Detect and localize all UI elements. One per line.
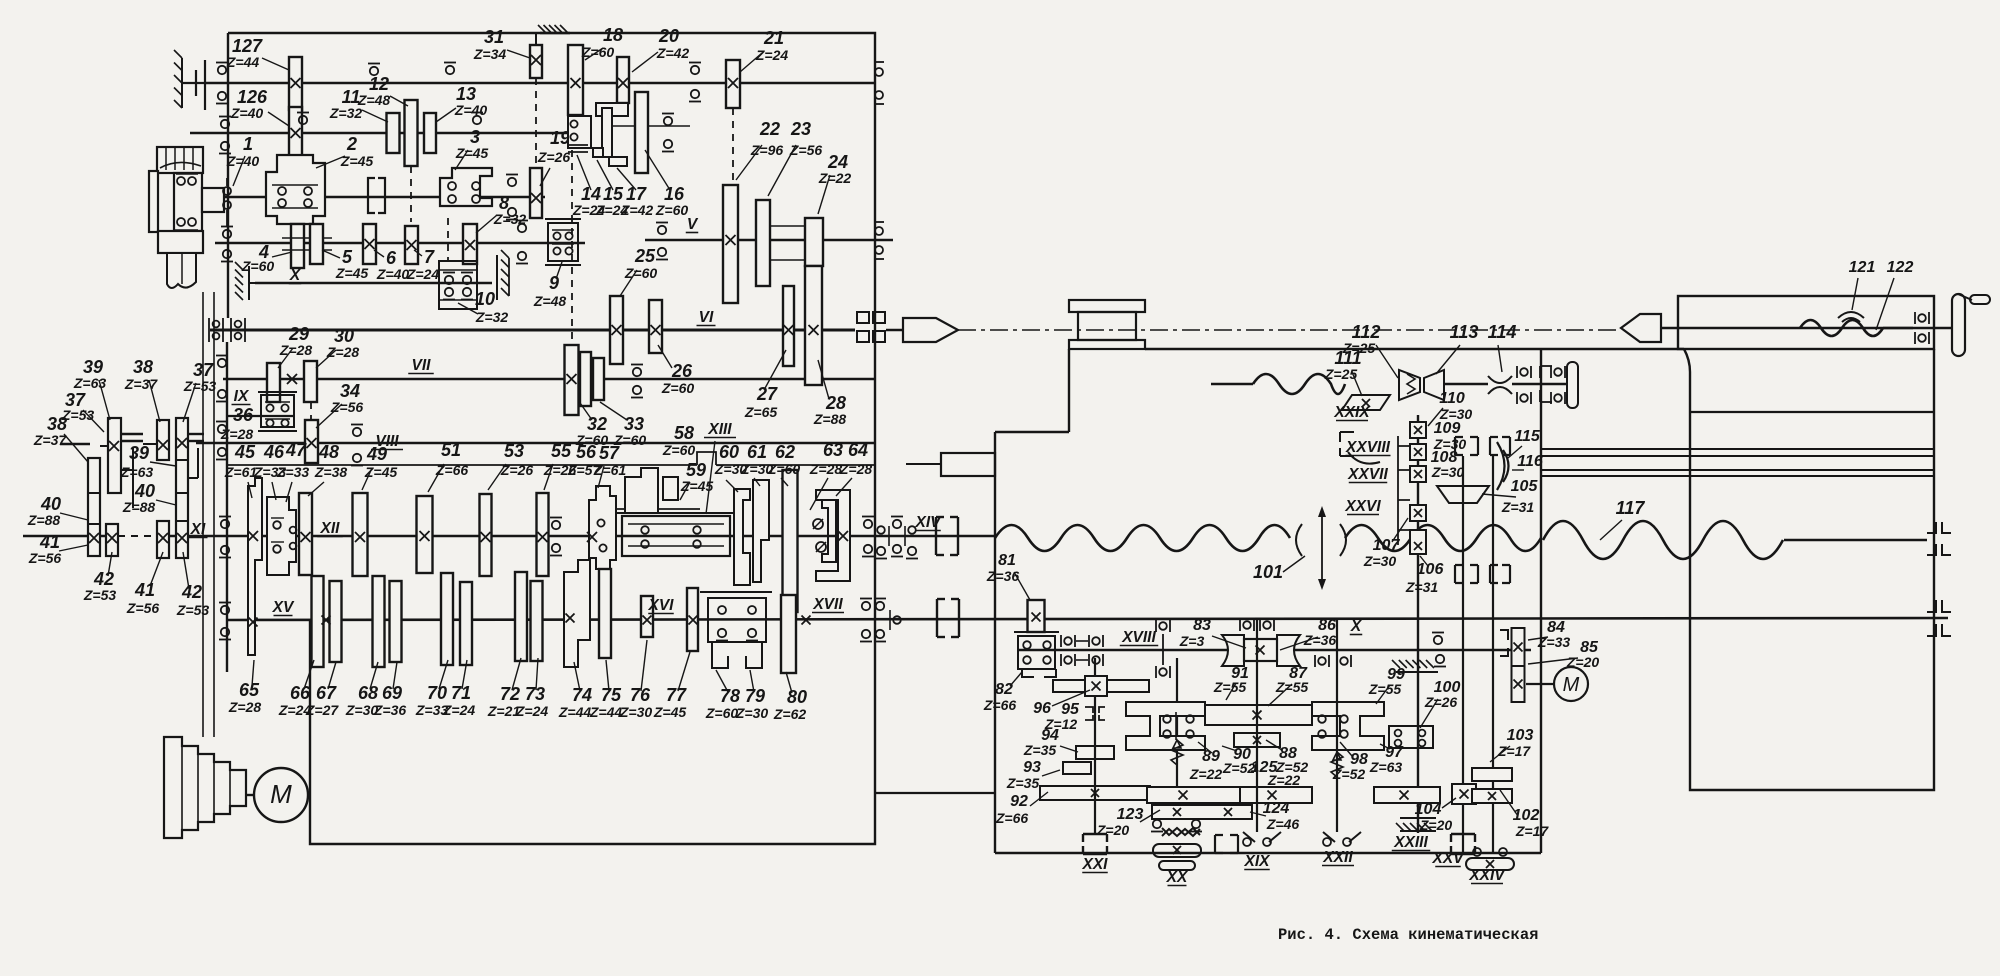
gear 81 Z=36 [1028,600,1045,632]
gear 7 Z=24 on shaft II [405,226,418,264]
svg-text:Z=60: Z=60 [662,442,696,458]
svg-text:16: 16 [664,184,685,204]
gear 15 step [593,148,603,157]
tailstock screw bearing [1914,312,1916,324]
gear 38 Z=37 right pair upper [157,420,169,460]
gear 42 Z=53 lower [106,524,118,556]
svg-text:Z=66: Z=66 [983,697,1017,713]
svg-text:51: 51 [441,440,461,460]
svg-text:Z=44: Z=44 [558,704,592,720]
svg-text:Z=56: Z=56 [28,550,62,566]
gear 60 Z=30 [734,489,750,585]
shaft X short [255,282,492,285]
vertical shaft XXI [1094,658,1096,835]
svg-text:71: 71 [451,683,471,703]
svg-text:Z=24: Z=24 [406,266,440,282]
bearing block 14 [568,116,591,148]
shaft VIII [196,442,875,445]
gear 28 Z=88 on shaft VI [805,266,822,385]
svg-text:75: 75 [601,685,622,705]
svg-text:XV: XV [272,599,295,616]
bearings left wall shaft XV [221,606,229,614]
spring 114 [1488,376,1512,383]
clutch jaws upper [1455,437,1478,455]
centerline through gears 22 23 24 [769,225,806,227]
svg-text:15: 15 [603,184,624,204]
belt lines from motor pulley to spindle pulley [202,292,204,737]
coupling bottom XXI [1083,833,1107,835]
spindle center point cone [903,318,958,342]
gear 26 Z=60 on shaft VI [649,300,662,353]
svg-text:102: 102 [1513,807,1540,824]
bearing sign near 84 [1434,636,1442,644]
tailstock top housing [1678,296,1934,349]
svg-text:X: X [289,267,302,284]
ratchet on shaft XX [1162,828,1200,835]
svg-text:Z=55: Z=55 [1368,681,1402,697]
svg-text:Z=45: Z=45 [455,145,489,161]
svg-text:Z=36: Z=36 [373,702,407,718]
gear 23 Z=56 on shaft V [756,200,770,286]
gear 55 Z=26 [537,493,549,576]
svg-text:M: M [1563,674,1580,696]
gear 90 small on shaft XIX [1234,733,1280,747]
svg-text:Z=63: Z=63 [1369,759,1403,775]
wall bracket left end of shaft IV [204,60,206,110]
svg-text:Z=22: Z=22 [1189,766,1223,782]
clutch on spindle right end [857,312,869,323]
shaft XVIII and X in apron [1017,649,1531,652]
svg-text:Z=40: Z=40 [454,102,488,118]
svg-text:62: 62 [775,442,795,462]
svg-text:96: 96 [1033,700,1051,717]
svg-text:36: 36 [233,405,254,425]
gear 51 Z=66 [417,496,433,573]
svg-text:42: 42 [93,569,114,589]
gear 49 Z=45 [353,493,368,576]
gear 80 Z=62 [781,595,796,673]
svg-text:74: 74 [572,685,592,705]
gear 76 Z=30 [641,596,653,637]
svg-text:78: 78 [720,686,740,706]
gear 75 Z=44 [599,569,611,658]
svg-text:103: 103 [1507,727,1534,744]
gear 84 Z=33 and 85 Z=20 [1500,630,1508,656]
hub line through cluster [601,125,690,127]
svg-text:XXII: XXII [1322,849,1353,866]
svg-text:63: 63 [823,440,843,460]
svg-text:23: 23 [790,119,811,139]
spindle lower stub with break [167,253,196,288]
svg-text:48: 48 [318,442,339,462]
break arcs and arrow 101 [1296,524,1302,556]
gear 66 Z=24 [312,576,324,667]
gear 63 Z=28 inner bracket [822,500,836,562]
bearing ticks on shaft X [1155,620,1157,632]
svg-text:Z=46: Z=46 [1266,816,1300,832]
bearings on shaft IV [218,66,226,74]
wall hatch right of gear 10 [496,255,498,300]
svg-text:XVI: XVI [648,597,675,614]
vertical shaft XIX with bevel [1256,620,1258,832]
svg-text:XIII: XIII [707,421,732,438]
overrunning rollers near gear 64 [813,519,823,529]
bearings shaft II right [518,224,526,232]
shift fork rail above gear row 45-64 [227,464,697,466]
long gear 123 Z=20 and 124 Z=46 [1147,787,1240,803]
svg-text:Z=65: Z=65 [744,404,778,420]
svg-text:Z=66: Z=66 [995,810,1029,826]
shaft XIII gear block 58 59 [617,508,700,510]
svg-text:Z=56: Z=56 [330,399,364,415]
arcs 121 [1838,312,1864,318]
shaft II [215,242,585,245]
bearing block 46 47 [267,497,296,575]
svg-text:Z=34: Z=34 [473,46,507,62]
gear 16 disc [635,92,648,173]
svg-text:XXVIII: XXVIII [1345,439,1391,456]
lathe bed ways lines [1541,448,1934,450]
bearings on shaft XII mid [552,521,560,529]
apron and feed box housing [994,432,996,853]
shaft XXIII hatch [1400,817,1436,819]
svg-text:Z=24: Z=24 [515,703,549,719]
svg-text:XXIII: XXIII [1393,834,1428,851]
svg-text:114: 114 [1488,322,1517,342]
gear 6 Z=40 on shaft II [363,224,376,264]
gear cluster 32 33 58 on shaft VII right [565,345,579,415]
drive pulley on carriage [1069,300,1145,312]
gear 25 Z=60 on shaft VI [610,296,623,364]
svg-text:Z=36: Z=36 [986,568,1020,584]
svg-text:Z=31: Z=31 [1405,579,1439,595]
gear 67 Z=27 [330,581,342,662]
oval XXIV [1473,848,1481,856]
clutch gear 19 Z=26 on shaft I [530,168,542,218]
svg-text:24: 24 [827,152,848,172]
detent spring on shaft XX [1171,740,1183,765]
gear 39 Z=63 upper [108,418,121,493]
shaft XI and XII [23,535,118,538]
spindle hub [202,188,224,212]
svg-text:Z=45: Z=45 [653,704,687,720]
leadscrew support bracket right lower [1927,600,1951,636]
gear 31 Z=34 [535,33,537,45]
svg-text:Z=60: Z=60 [624,265,658,281]
svg-text:Z=22: Z=22 [1267,772,1301,788]
bearings shaft II left [223,230,231,238]
svg-text:Z=38: Z=38 [314,464,348,480]
svg-text:Z=20: Z=20 [1096,822,1130,838]
svg-text:Z=62: Z=62 [773,706,807,722]
bearing block 10 Z=32 on shaft X [439,261,477,309]
gear 74 Z=44 cluster [564,560,590,667]
svg-text:Z=37: Z=37 [33,432,68,448]
carriage top line [1145,348,1684,350]
svg-text:Z=30: Z=30 [735,705,769,721]
svg-text:Рис. 4. Схема кинематическая: Рис. 4. Схема кинематическая [1278,926,1538,944]
motor shaft line [246,794,254,796]
svg-text:5: 5 [342,247,353,267]
dashed line gear 31 to clutch gear 19 [535,78,537,168]
clutch small on XXI [1085,707,1105,720]
svg-text:101: 101 [1253,562,1283,582]
cone pulley bottom rim [158,231,203,253]
svg-text:29: 29 [288,324,309,344]
svg-text:Z=45: Z=45 [340,153,374,169]
gear 56 57 cluster [589,486,616,569]
svg-text:Z=30: Z=30 [1363,553,1397,569]
gear 27 Z=65 on shaft VI [783,286,794,366]
gear 48 Z=38 [299,493,312,575]
svg-text:116: 116 [1517,453,1543,470]
vertical shaft XXVIII column [1417,415,1419,833]
gear 13 Z=40 [424,113,436,153]
svg-text:Z=88: Z=88 [813,411,847,427]
svg-text:VI: VI [699,309,714,326]
shift rail 2 [197,448,199,478]
gear 73 Z=24 [531,581,543,661]
svg-text:83: 83 [1193,617,1211,634]
svg-text:45: 45 [234,442,256,462]
cone pulley on shaft I top rim [157,147,203,173]
svg-text:26: 26 [671,361,693,381]
ratchet clutch 113 [1399,370,1444,400]
svg-text:Z=61: Z=61 [593,462,627,478]
svg-text:21: 21 [763,28,784,48]
gear 30 Z=28 on shaft VII [304,361,317,402]
svg-text:Z=56: Z=56 [126,600,160,616]
svg-text:17: 17 [626,184,647,204]
dashed line gear 12 to gear 7 [410,166,412,222]
gear 11 Z=32 [387,113,400,153]
gear 127 Z=44 [289,57,302,110]
svg-text:XXIX: XXIX [1333,404,1371,421]
svg-text:31: 31 [484,27,504,47]
svg-text:10: 10 [475,289,495,309]
svg-text:XXV: XXV [1431,850,1465,867]
gear 100 Z=26 block [1389,726,1433,748]
svg-text:123: 123 [1117,806,1144,823]
shaft V [645,239,893,242]
gear 62 Z=60 [783,470,798,612]
svg-text:33: 33 [624,414,644,434]
gear 72 Z=21 [515,572,527,661]
svg-text:112: 112 [1352,322,1381,342]
svg-text:Z=24: Z=24 [442,702,476,718]
tailstock body [1684,349,1934,790]
svg-text:Z=25: Z=25 [1342,340,1376,356]
motor M right [1526,683,1554,685]
dashed line block 3 to block 10 [447,218,449,262]
gear 15 vertical element [602,108,612,157]
gear 8 Z=32 on shaft II [463,224,477,264]
svg-text:Z=33: Z=33 [276,464,310,480]
svg-text:Z=31: Z=31 [1501,499,1535,515]
bearing block 82 Z=66 [1014,631,1059,633]
bearings shaft V [658,226,666,234]
gear 5 Z=45 on shaft II [310,224,323,264]
detent spring on shaft XXII [1331,752,1343,777]
svg-text:56: 56 [576,442,597,462]
svg-text:49: 49 [366,444,387,464]
coupling on shaft XIV [935,517,937,555]
tailstock screw wavy [1800,320,1883,336]
svg-text:Z=26: Z=26 [537,149,571,165]
svg-text:M: M [270,779,292,809]
svg-text:6: 6 [386,248,397,268]
svg-text:IX: IX [234,388,250,405]
bearings on shaft III [299,116,307,124]
svg-text:124: 124 [1263,800,1290,817]
svg-text:XXVI: XXVI [1344,498,1381,515]
svg-text:Z=60: Z=60 [661,380,695,396]
gear 4 Z=60 on shaft II [291,224,304,268]
svg-text:Z=60: Z=60 [767,461,801,477]
svg-text:Z=30: Z=30 [1431,464,1465,480]
shift rail [132,448,134,508]
svg-text:59: 59 [686,460,706,480]
gear 69 Z=36 [390,581,402,662]
gear 70 Z=33 [441,573,453,665]
svg-text:18: 18 [603,25,623,45]
svg-text:73: 73 [525,684,545,704]
svg-text:X: X [1350,618,1363,635]
svg-text:Z=61: Z=61 [224,464,258,480]
svg-text:XII: XII [320,520,341,537]
svg-text:Z=33: Z=33 [1537,634,1571,650]
bevel gear 105 Z=31 [1437,486,1489,503]
bearing block gear 78 79 [700,591,772,593]
svg-text:47: 47 [285,440,307,460]
svg-text:67: 67 [316,683,337,703]
svg-text:122: 122 [1887,259,1914,276]
svg-text:38: 38 [133,357,153,377]
gear 22 Z=96 on shaft V [723,185,738,303]
svg-text:Z=28: Z=28 [279,342,313,358]
wall hatch left end of shaft X [248,266,250,300]
svg-text:XXIV: XXIV [1468,867,1506,884]
feed rod line [1211,383,1253,385]
gear 96 Z=12 box [1053,680,1149,692]
gear stack 37 39 40 42 right column [176,418,188,558]
coupling right of ratchet [1215,835,1238,853]
svg-text:72: 72 [500,684,520,704]
svg-text:XXVII: XXVII [1347,466,1388,483]
shaft I [220,196,545,199]
gear 104 Z=20 box [1452,784,1476,804]
gear 97 long rect right [1374,787,1440,803]
svg-text:Z=42: Z=42 [656,45,690,61]
wire: link between gearbox and feed box [875,792,995,794]
bearings left wall shaft XI [221,520,229,528]
svg-text:69: 69 [382,683,402,703]
ground hatch above housing at gear 31 [540,32,570,34]
svg-text:Z=60: Z=60 [655,202,689,218]
bearings shaft I right [508,178,516,186]
svg-text:12: 12 [369,74,389,94]
bearings wall right shaft IV [875,61,884,63]
bearings at wall shaft XVII [862,602,870,610]
svg-text:3: 3 [470,127,480,147]
bearings on shaft XVIII left [1060,635,1062,647]
dashed line gear 21 down to gear 22 [732,108,734,185]
svg-text:64: 64 [848,440,868,460]
svg-text:53: 53 [504,441,524,461]
svg-text:XI: XI [190,521,206,538]
gear 64 Z=28 outer bracket [816,490,850,581]
svg-text:82: 82 [995,681,1013,698]
svg-text:55: 55 [551,441,572,461]
svg-text:XXI: XXI [1082,856,1109,873]
gear 17 step [609,157,627,166]
svg-text:Z=35: Z=35 [1023,742,1057,758]
svg-text:Z=32: Z=32 [475,309,509,325]
svg-text:Z=3: Z=3 [1179,633,1205,649]
svg-text:41: 41 [39,532,60,552]
svg-text:2: 2 [346,134,357,154]
shaft VI spindle [210,329,855,332]
svg-text:Z=26: Z=26 [500,462,534,478]
clutch jaws lower [1455,565,1478,583]
svg-text:Z=28: Z=28 [220,426,254,442]
svg-text:Z=48: Z=48 [357,92,391,108]
svg-text:Z=63: Z=63 [120,464,154,480]
bearing shaft III left [221,120,229,128]
svg-text:14: 14 [581,184,601,204]
svg-text:80: 80 [787,687,807,707]
shaft I coupling bracket [368,178,385,213]
svg-text:30: 30 [334,326,354,346]
gear block 2 Z=45 on shaft I [266,155,325,224]
worm 83 Z=3 on shaft X [1222,635,1300,666]
leadscrew support bracket right 117 [1927,522,1951,555]
gear 94 Z=35 [1076,746,1114,759]
svg-text:Z=60: Z=60 [705,705,739,721]
bearing block 9 Z=48 on shaft II [545,218,581,220]
svg-text:126: 126 [237,87,268,107]
svg-text:20: 20 [658,26,679,46]
svg-text:60: 60 [719,442,739,462]
svg-text:Z=28: Z=28 [228,699,262,715]
shaft XV XVI XVII leadscrew line [227,618,1948,620]
bearings right of gear 16 [664,117,672,125]
svg-text:Z=40: Z=40 [376,266,410,282]
svg-text:Z=88: Z=88 [27,512,61,528]
dashed line gear 18 to gear 32 [571,150,573,345]
svg-text:Z=53: Z=53 [83,587,117,603]
gear 24 Z=22 on shaft V [805,218,823,266]
svg-text:Z=44: Z=44 [226,54,260,70]
halfnut wavy line on leadscrew [995,525,1290,551]
spindle bearing housing [174,173,202,231]
svg-text:Z=44: Z=44 [589,704,623,720]
svg-text:Z=45: Z=45 [364,464,398,480]
svg-text:58: 58 [674,423,694,443]
svg-text:92: 92 [1010,793,1028,810]
svg-text:117: 117 [1616,498,1646,518]
svg-text:104: 104 [1415,801,1442,818]
svg-text:39: 39 [129,443,149,463]
svg-text:93: 93 [1023,759,1041,776]
svg-text:105: 105 [1511,478,1539,495]
svg-text:40: 40 [134,481,155,501]
svg-text:Z=17: Z=17 [1515,823,1550,839]
svg-text:Z=53: Z=53 [183,378,217,394]
svg-text:VII: VII [412,357,432,374]
svg-text:25: 25 [634,246,656,266]
bearing 1 Z=40 on shaft I [223,187,231,195]
